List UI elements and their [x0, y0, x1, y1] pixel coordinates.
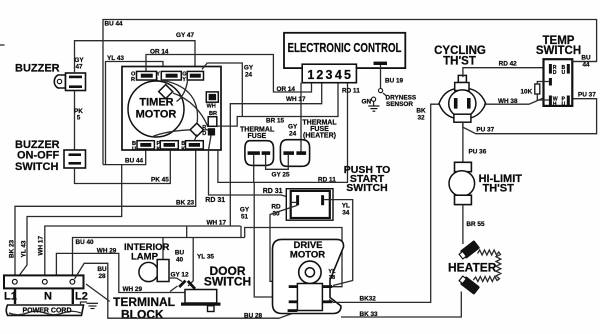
svg-text:MOTOR: MOTOR [136, 109, 177, 121]
temp switch box [544, 59, 573, 106]
door switch lever contacts [170, 281, 195, 292]
svg-text:WH 17: WH 17 [38, 236, 45, 256]
thermal fuse F1 terminals [248, 151, 260, 155]
dryness sensor contact top [379, 89, 383, 93]
svg-text:WH 29: WH 29 [97, 248, 117, 255]
motor terminal BK right [322, 300, 332, 303]
svg-text:ON-OFF: ON-OFF [17, 150, 59, 162]
timer diamond contact 1 [159, 85, 173, 99]
wire WH17 pin3 down to lower run [230, 83, 321, 226]
wire RD42 cycling to temp switch [463, 68, 544, 77]
svg-text:GY 12: GY 12 [171, 272, 189, 279]
svg-text:OR 14: OR 14 [277, 86, 296, 93]
svg-text:BU 44: BU 44 [125, 158, 144, 165]
svg-text:L2: L2 [75, 291, 88, 303]
svg-text:WH: WH [207, 104, 216, 110]
svg-text:BR 15: BR 15 [266, 118, 285, 125]
timer terminal PK bottom [157, 141, 179, 153]
temp switch terminal RD [549, 64, 557, 76]
cycling thermostat body [439, 75, 486, 122]
wire top border BU44 [103, 20, 597, 165]
svg-text:OR 14: OR 14 [150, 49, 169, 56]
wire GY24 timer to BR15 line [202, 63, 242, 117]
svg-text:BU28: BU28 [97, 266, 107, 280]
wire BU28 L2 to motor [75, 263, 298, 318]
svg-text:TH'ST: TH'ST [443, 56, 476, 68]
svg-text:SWITCH: SWITCH [15, 161, 58, 173]
svg-text:4: 4 [335, 68, 342, 82]
svg-text:BU 19: BU 19 [385, 78, 404, 85]
wire WH17 N to pins column [45, 226, 241, 278]
thermal fuse F2 terminals [283, 151, 294, 155]
terminal block TB1 [4, 275, 84, 288]
timer terminal WH [206, 92, 218, 110]
svg-text:U: U [562, 101, 566, 107]
temp switch terminal WH [549, 96, 558, 108]
wire RD30 switch to motor [270, 205, 298, 285]
svg-text:SWITCH: SWITCH [346, 182, 387, 194]
svg-text:HEATER: HEATER [448, 261, 497, 275]
timer cam curve 4 [152, 130, 190, 137]
wire YL35 door switch [188, 238, 193, 287]
chassis ground power cord [81, 302, 99, 309]
electronic control box [284, 33, 405, 68]
wire BK23 timer BK down to L1 [15, 150, 196, 277]
motor terminal BU left [288, 309, 298, 312]
svg-text:Y: Y [182, 77, 186, 83]
wire RD11 timer RD to pin5 [218, 83, 348, 183]
wire L1 stub [14, 288, 16, 304]
wire stub above lamp [186, 226, 188, 238]
connector pins box U1 [302, 64, 356, 83]
svg-text:YL 43: YL 43 [21, 240, 28, 257]
svg-text:RD 31: RD 31 [205, 197, 225, 204]
wire PK45 on-off switch to timer PK [75, 150, 171, 184]
svg-text:TIMER: TIMER [139, 97, 173, 109]
svg-text:FUSE: FUSE [248, 133, 267, 140]
timer cam curve 3 [173, 93, 208, 127]
thermal fuse heater F2 body [280, 140, 309, 167]
svg-text:TH'ST: TH'ST [483, 183, 515, 195]
hi-limit thermostat [449, 162, 475, 204]
svg-text:BUZZER: BUZZER [15, 63, 60, 75]
temp switch terminal PU [562, 96, 570, 108]
svg-text:WH 17: WH 17 [286, 96, 306, 103]
wire GY12 lamp to door switch [169, 278, 182, 282]
svg-text:BU 28: BU 28 [244, 312, 263, 319]
svg-text:10K: 10K [521, 89, 533, 96]
svg-text:YL 35: YL 35 [197, 254, 214, 261]
svg-text:RD30: RD30 [271, 204, 281, 218]
motor terminal GY left [289, 300, 298, 303]
svg-text:BU 44: BU 44 [105, 21, 124, 28]
timer terminal RD [202, 125, 215, 150]
svg-text:YL34: YL34 [342, 203, 350, 217]
timer wire diamond2 to BK [195, 135, 197, 141]
wire GY47 buzzer to timer GY [75, 41, 196, 74]
drive motor rotor circle [299, 261, 321, 283]
svg-text:BK 33: BK 33 [360, 311, 379, 318]
svg-text:BLOCK: BLOCK [121, 308, 164, 322]
power cord box [6, 305, 83, 315]
svg-text:YL38: YL38 [328, 269, 336, 281]
svg-text:SENSOR: SENSOR [386, 101, 413, 108]
svg-text:BK 23: BK 23 [176, 200, 195, 207]
wire stub left edge [0, 44, 5, 46]
push to start switch S1 [286, 189, 333, 221]
dryness sensor bar [374, 62, 388, 65]
timer terminal GY [182, 71, 203, 83]
svg-text:RD 11: RD 11 [342, 88, 360, 95]
svg-text:PU 36: PU 36 [469, 149, 487, 156]
wire pin1 to right fuse [300, 83, 302, 152]
svg-text:BU40: BU40 [175, 250, 185, 264]
wire GY51 fuse to motor [254, 182, 289, 297]
wire YL43 timer YL down-left to L1 [106, 62, 164, 165]
wire BK33 motor to heater [341, 292, 461, 318]
svg-text:5: 5 [344, 68, 351, 82]
svg-text:SWITCH: SWITCH [536, 45, 581, 57]
svg-text:BU 40: BU 40 [76, 239, 95, 246]
wire WH38 cycling to temp switch [484, 98, 544, 104]
wire RD31 timer to PTS switch [209, 150, 297, 200]
svg-text:2: 2 [316, 68, 323, 82]
door switch S2 body [181, 290, 221, 312]
drive motor block [297, 284, 322, 311]
svg-text:BK 23: BK 23 [9, 239, 16, 258]
svg-text:RD 31: RD 31 [263, 188, 283, 195]
motor terminal RD left [289, 285, 298, 288]
svg-text:BR: BR [209, 111, 217, 117]
wire OR14 timer to pin2 [146, 55, 312, 93]
svg-text:MOTOR: MOTOR [290, 250, 325, 261]
timer cam curve 2 [177, 79, 188, 102]
thermal fuse F1 body [245, 141, 274, 166]
svg-text:U: U [132, 147, 136, 153]
timer terminal OR [131, 71, 157, 83]
svg-text:1: 1 [307, 68, 314, 82]
timer motor box [122, 67, 221, 151]
svg-text:N: N [44, 291, 52, 303]
wire lamp stub to BU40 [162, 238, 164, 260]
svg-text:(HEATER): (HEATER) [303, 133, 336, 140]
timer diamond contact 2 [190, 123, 203, 136]
wire PU37 cycling to temp switch [463, 99, 597, 134]
svg-text:RD 42: RD 42 [499, 61, 518, 68]
interior lamp socket [157, 260, 169, 282]
svg-text:GY 47: GY 47 [176, 32, 194, 39]
wire WH17 continuation to motor [245, 228, 342, 287]
timer cam curve 1 [161, 80, 198, 123]
wire PK5 buzzer to on-off switch [74, 91, 76, 151]
wire BU44 temp switch to top border [572, 61, 596, 63]
heater coil [473, 250, 500, 281]
svg-text:BK32: BK32 [416, 108, 426, 122]
wire PU36 cycling to hi-limit [462, 122, 464, 162]
interior lamp bulb [139, 262, 158, 281]
timer terminal BU bottom [132, 141, 154, 153]
wire YL34 switch to motor [330, 200, 353, 286]
svg-text:BK32: BK32 [360, 296, 377, 303]
timer terminal BK bottom [181, 141, 203, 153]
svg-text:POWER CORD: POWER CORD [23, 307, 72, 314]
timer motor circle [128, 81, 184, 137]
wire BU44 left corner to timer BU [103, 150, 146, 165]
svg-text:PU 37: PU 37 [578, 92, 596, 99]
svg-text:WH 29: WH 29 [123, 286, 143, 293]
wire BU40 L2 to YL35 corner [73, 238, 245, 278]
svg-text:GY 25: GY 25 [272, 171, 290, 178]
svg-text:RD 11: RD 11 [318, 177, 336, 184]
svg-text:SWITCH: SWITCH [204, 275, 251, 289]
wire BR15 timer BR to pin4 [217, 83, 338, 126]
wire L2 stub [72, 288, 74, 304]
wire BK32 motor to cycling thermostat [329, 104, 442, 302]
leader terminal block [86, 284, 110, 301]
wire BU19 sensor [380, 65, 382, 88]
wire BR55 hi-limit to heater [462, 205, 464, 244]
svg-text:PU 37: PU 37 [476, 126, 494, 133]
svg-text:3: 3 [326, 68, 333, 82]
ground symbol dryness [368, 101, 379, 111]
buzzer on-off switch [64, 150, 86, 168]
heater terminal bottom [458, 274, 480, 295]
svg-text:R: R [131, 77, 135, 83]
timer terminal BR [208, 111, 217, 126]
svg-text:U: U [562, 70, 566, 76]
timer wire diamond2 to RD [203, 129, 208, 131]
svg-text:D: D [553, 70, 557, 76]
svg-text:PK 45: PK 45 [151, 177, 169, 184]
wire GY25 between fuses [266, 155, 289, 169]
svg-text:WH 38: WH 38 [498, 98, 518, 105]
svg-text:D: D [202, 131, 206, 137]
wire WH29 N to door switch [56, 253, 185, 292]
temp switch mid contact bar [549, 78, 552, 86]
svg-text:LAMP: LAMP [131, 252, 159, 263]
timer terminal YL [156, 71, 181, 83]
svg-text:BR 55: BR 55 [466, 221, 485, 228]
svg-text:ELECTRONIC CONTROL: ELECTRONIC CONTROL [288, 41, 402, 55]
heater terminal top [458, 240, 480, 261]
temp switch terminal BU [562, 64, 570, 76]
wire fuse F1 down [253, 155, 255, 183]
svg-text:YL 43: YL 43 [107, 55, 124, 62]
resistor 10K [535, 82, 549, 101]
buzzer [54, 73, 85, 91]
svg-text:H: H [553, 101, 557, 107]
svg-text:K: K [181, 147, 185, 153]
motor terminal YL right [322, 285, 332, 288]
svg-text:WH 17: WH 17 [207, 220, 227, 227]
dryness sensor contact bottom [372, 97, 376, 101]
drive motor housing [273, 239, 344, 313]
leader dryness [383, 93, 387, 96]
